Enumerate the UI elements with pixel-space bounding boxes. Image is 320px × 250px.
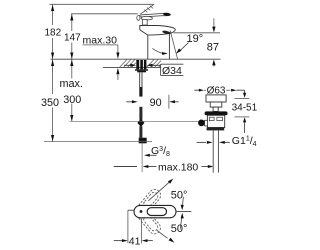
plan view: dashed handle rotated -50 — [132, 187, 163, 220]
lever handle blade — [139, 13, 170, 17]
lower 50 leader diagonal — [157, 230, 168, 238]
drain body slots — [209, 117, 214, 120]
leader diagonal from handle to 182 line — [140, 4, 154, 14]
svg-text:41: 41 — [129, 236, 141, 248]
19 degree spray line — [170, 31, 177, 60]
plan view: inner oval — [147, 208, 166, 216]
countertop hatching — [120, 59, 162, 67]
extension line below connector — [141, 143, 143, 172]
lower 50 leader vertical — [181, 213, 184, 219]
arc arrow under spout — [152, 48, 162, 53]
34-51 dimension verticals — [244, 90, 246, 93]
dimension 87 extension line (spout outlet) — [174, 32, 221, 34]
lever tail knob — [137, 16, 140, 21]
arrowheads 182/350 line — [51, 5, 54, 142]
plan view: solid handle pill — [134, 205, 176, 217]
dimension Ø34 arrows at shank — [124, 64, 131, 66]
drain: Ø63 dimension — [194, 89, 200, 91]
plan view: right stub line — [176, 211, 191, 213]
max.30 underline — [83, 44, 118, 46]
drain stem knob — [213, 107, 218, 111]
dimension line 182/350 vertical — [52, 4, 54, 141]
dimension 41 extension lines — [127, 210, 129, 243]
plan view: left stub line — [128, 209, 134, 211]
dimension G3/8 — [144, 154, 150, 157]
plan view: dashed handle rotated +50 — [132, 203, 163, 236]
dimension 87 vertical with outside arrows — [213, 18, 215, 27]
drain gasket flange — [205, 111, 228, 115]
svg-text:50°: 50° — [171, 190, 188, 202]
19 degree leader — [179, 43, 188, 52]
svg-text:300: 300 — [63, 94, 81, 106]
aerator at spout tip — [162, 30, 171, 35]
drain ball joint — [198, 120, 205, 127]
cartridge neck — [143, 19, 148, 25]
upper 50 leader diagonal — [148, 182, 169, 201]
350 bottom extension line — [44, 141, 152, 143]
countertop top line — [51, 58, 221, 60]
horizontal linkage line to drain — [70, 120, 199, 122]
svg-text:350: 350 — [41, 97, 59, 109]
mounting nut — [135, 69, 148, 70]
drain body lower band — [207, 127, 225, 130]
lever dark tip — [163, 13, 171, 17]
svg-text:max.180: max.180 — [158, 161, 198, 173]
dimension 147 extension line — [71, 13, 138, 15]
svg-text:147: 147 — [64, 33, 81, 44]
dimension G1 1/4 — [197, 141, 206, 143]
Ø34 label box — [161, 64, 184, 75]
drain tailpipe — [212, 130, 214, 172]
svg-text:19°: 19° — [187, 33, 204, 45]
drain body — [207, 115, 224, 127]
rod junction diamond — [137, 119, 144, 127]
threaded shank below counter — [136, 60, 146, 69]
dimension 41 arrows — [114, 240, 122, 242]
plan view: pivot dot — [140, 210, 143, 213]
dimension 90 — [126, 101, 132, 103]
drain neck — [210, 102, 222, 107]
faucet body outline — [140, 25, 175, 59]
svg-text:Ø34: Ø34 — [162, 65, 182, 77]
svg-text:50°: 50° — [171, 223, 188, 235]
svg-text:182: 182 — [45, 27, 62, 38]
faucet body right edge — [168, 34, 170, 60]
supply connector end — [139, 138, 147, 144]
svg-text:87: 87 — [207, 42, 219, 54]
dimension line 147/max300 vertical — [71, 14, 73, 122]
max.30 vertical leader + arrows — [117, 45, 119, 53]
dimension 182 top extension line — [50, 3, 155, 5]
svg-text:90: 90 — [150, 97, 162, 109]
pop-up rod below shank — [139, 72, 141, 87]
upper 50 leader vertical — [182, 197, 185, 205]
arrowheads 147/max300 line — [70, 14, 73, 121]
svg-text:34-51: 34-51 — [232, 103, 258, 114]
drain plug cap — [206, 95, 226, 102]
svg-text:max.: max. — [60, 78, 83, 90]
lever collar — [141, 16, 152, 20]
countertop bottom line — [103, 67, 161, 69]
dimension max.180 — [114, 166, 137, 168]
